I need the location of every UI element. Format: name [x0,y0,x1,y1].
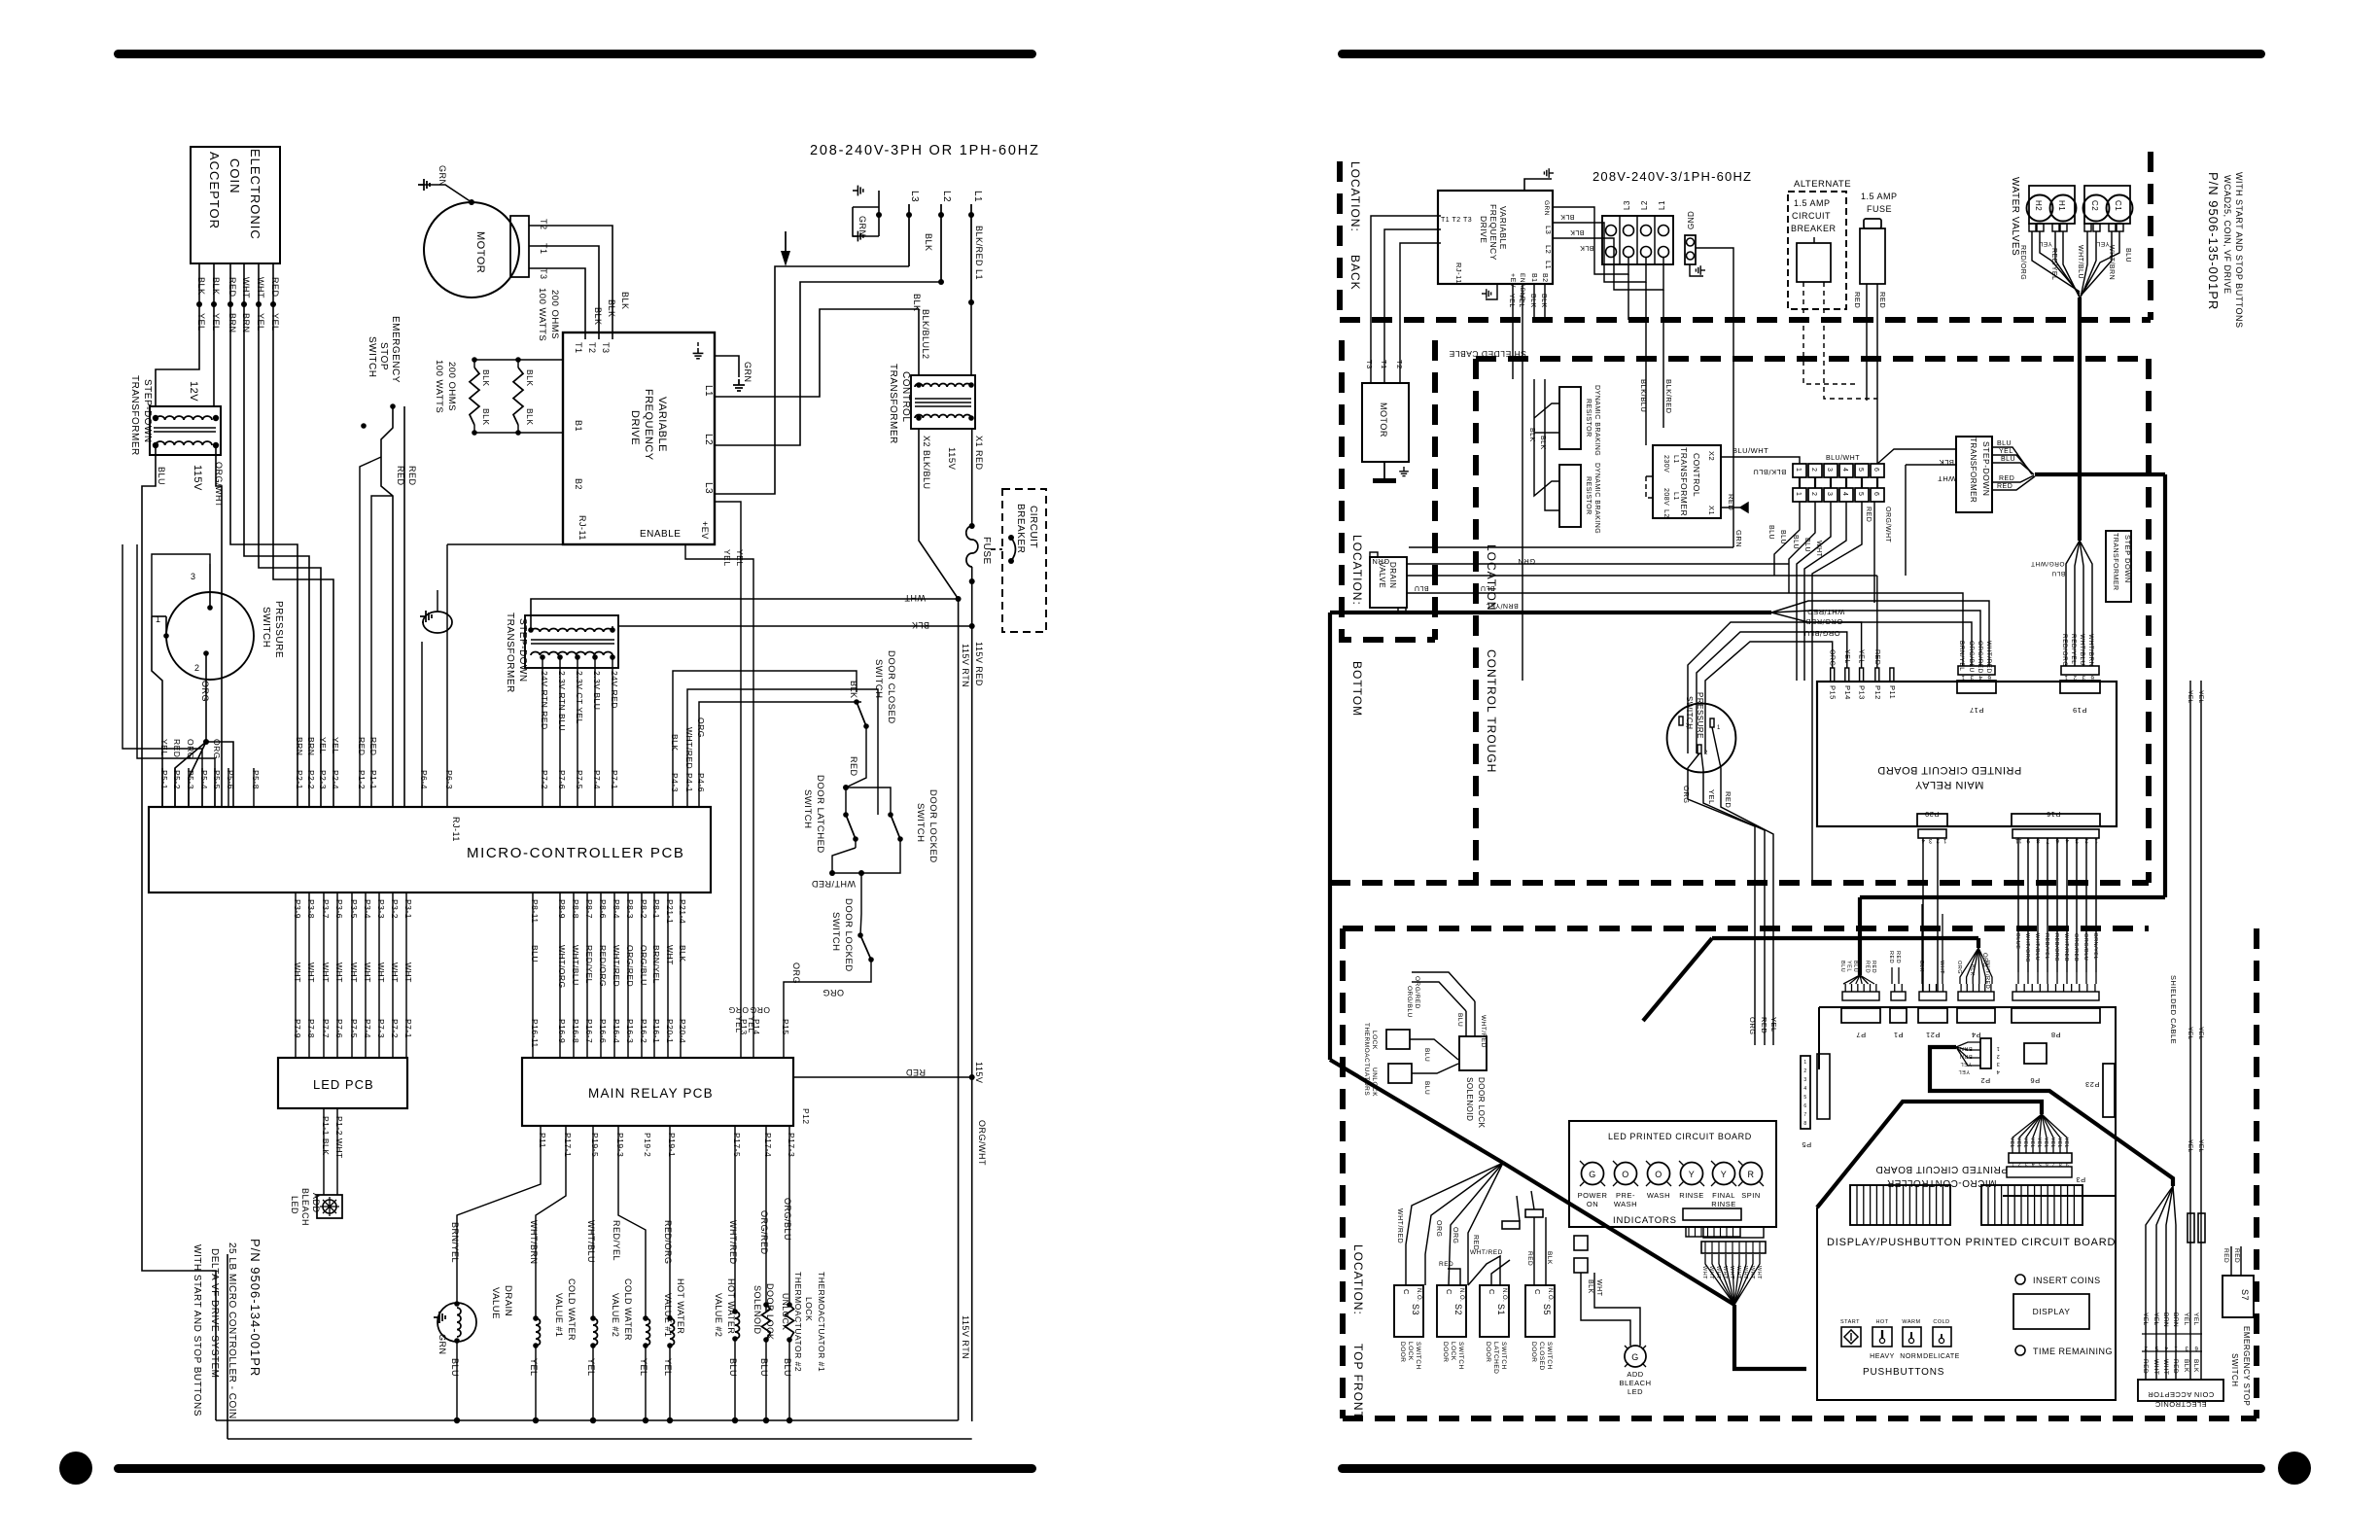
svg-text:WHT: WHT [2152,1359,2159,1375]
location back dashed region [1337,161,1343,320]
svg-text:T1: T1 [539,243,548,255]
time remaining [2015,1346,2025,1355]
location top front dashed region [1343,926,2149,931]
svg-text:TRANSFORMER: TRANSFORMER [2112,533,2118,591]
svg-text:WHT: WHT [376,962,386,983]
svg-text:P8-1: P8-1 [651,899,661,919]
svg-text:EMERGENCY: EMERGENCY [390,316,401,383]
svg-text:T3: T3 [1365,360,1374,369]
svg-text:WHT: WHT [1815,541,1822,558]
svg-text:BRN: BRN [306,737,316,755]
svg-text:ORG/WHT: ORG/WHT [1884,507,1891,543]
svg-text:LOCATION:: LOCATION: [1350,535,1364,606]
svg-text:YEL: YEL [2036,1137,2042,1148]
svg-text:DRIVE: DRIVE [629,410,641,445]
svg-text:P7-8: P7-8 [306,1019,316,1038]
svg-text:SWITCH: SWITCH [261,607,271,647]
x1 wire red [1721,507,1740,508]
svg-text:ORG/BLU: ORG/BLU [639,945,648,986]
svg-text:STEP-DOWN: STEP-DOWN [517,618,528,682]
P6 pins + RJ-11 wire [421,642,423,807]
main harness trunk horizontal [1330,611,1771,614]
svg-text:DELTA VF DRIVE SYSTEM: DELTA VF DRIVE SYSTEM [209,1248,220,1379]
svg-text:B2: B2 [1541,273,1548,283]
svg-text:VALUE #2: VALUE #2 [611,1293,620,1337]
svg-text:24V RED: 24V RED [610,671,619,709]
svg-text:BLK: BLK [211,277,221,296]
svg-text:P8-9: P8-9 [557,899,567,919]
svg-text:6: 6 [2194,1345,2198,1350]
svg-text:WHT: WHT [1756,1266,1762,1279]
svg-text:P16-6: P16-6 [598,1019,608,1043]
page rule: left page bottom bar [114,1464,1036,1473]
svg-text:5: 5 [1857,492,1864,496]
svg-text:WASH: WASH [1647,1191,1670,1200]
svg-text:ORG/RED: ORG/RED [2073,933,2079,962]
svg-text:BRN/YEL: BRN/YEL [651,945,661,984]
svg-text:P8-3: P8-3 [625,899,635,919]
svg-text:L2: L2 [703,434,714,445]
svg-text:RED/YEL: RED/YEL [2044,933,2049,960]
svg-text:BLK: BLK [1539,436,1546,450]
P5-4/P5-5 feeders from left margin [122,544,202,807]
svg-text:ADD: ADD [311,1193,321,1213]
svg-text:P3-6: P3-6 [334,899,344,919]
svg-text:RED: RED [2142,1359,2149,1374]
svg-text:YEL: YEL [2187,1027,2193,1040]
svg-text:3: 3 [1803,1077,1806,1083]
svg-text:POWER: POWER [1578,1191,1608,1200]
svg-text:S5: S5 [1542,1304,1552,1315]
svg-text:TRANSFORMER: TRANSFORMER [505,612,515,693]
svg-text:1: 1 [2064,674,2068,680]
svg-text:8: 8 [2058,1161,2061,1167]
svg-text:S3: S3 [1411,1304,1420,1315]
svg-text:YEL: YEL [1707,789,1716,805]
svg-text:1.5 AMP: 1.5 AMP [1861,192,1898,201]
svg-text:TIME REMAINING: TIME REMAINING [2033,1347,2113,1356]
svg-text:RINSE: RINSE [1711,1200,1735,1208]
svg-text:P6: P6 [2030,1076,2040,1085]
svg-text:+EV: +EV [700,521,710,540]
svg-text:ENABLE: ENABLE [640,529,681,540]
P3 fan [2012,1114,2042,1153]
svg-text:BLU: BLU [2001,456,2015,463]
svg-text:P1-2: P1-2 [357,770,367,789]
svg-text:ORG: ORG [200,681,210,702]
svg-text:LOCATION:: LOCATION: [1351,1244,1365,1315]
terminal block [1602,216,1673,264]
transformer1 fan right [1992,447,2032,474]
page rule: right page top bar [1338,50,2265,58]
svg-text:1: 1 [1717,725,1721,731]
svg-text:RED: RED [1472,1235,1479,1250]
svg-text:1: 1 [1803,1060,1806,1066]
svg-text:2: 2 [1810,468,1817,472]
svg-text:COLD WATER: COLD WATER [567,1278,577,1341]
connector strip 1-6 row2 [1793,488,1806,502]
svg-text:200 OHMS: 200 OHMS [549,290,560,339]
svg-text:WHT: WHT [390,962,400,983]
svg-text:FUSE: FUSE [981,537,992,565]
svg-text:BLU: BLU [2124,248,2131,262]
svg-text:P2-2: P2-2 [306,770,316,789]
L2 wire to VFD [715,282,941,445]
thermoactuator 1 lock [788,1126,790,1305]
svg-text:YEL: YEL [331,737,340,754]
svg-text:ORG/RED: ORG/RED [625,945,635,987]
svg-text:WHT/RED: WHT/RED [684,727,694,769]
svg-text:BLK: BLK [1969,964,1975,976]
svg-text:BLU: BLU [1779,530,1786,544]
svg-text:TRANSFORMER: TRANSFORMER [1969,437,1977,503]
svg-text:BLK: BLK [1560,213,1575,220]
svg-text:WHT/BRN: WHT/BRN [529,1220,539,1265]
svg-text:P5-8: P5-8 [251,770,261,789]
P8 wires [2017,972,2019,984]
dynamic braking resistor 1 [1559,387,1581,449]
svg-text:GRN: GRN [743,362,752,383]
svg-text:YEL: YEL [159,739,169,756]
svg-text:P7-7: P7-7 [321,1019,331,1038]
svg-text:2: 2 [2017,1161,2020,1167]
add bleach led [317,1195,342,1218]
svg-text:L1: L1 [703,385,714,397]
YEL YEL long verticals to relay [715,502,741,1058]
svg-text:BLK: BLK [1587,1279,1593,1294]
svg-text:DOOR LOCK: DOOR LOCK [1477,1077,1486,1129]
svg-text:P5-4: P5-4 [199,770,209,789]
svg-text:EMERGENCY STOP: EMERGENCY STOP [2242,1326,2251,1406]
svg-text:BRN: BRN [2172,1312,2179,1327]
svg-text:P3-2: P3-2 [390,899,400,919]
svg-text:WHT: WHT [1701,1266,1707,1279]
svg-text:P/N 9506-134-001PR: P/N 9506-134-001PR [248,1239,262,1377]
wire 12V transformer secondary [142,445,216,1420]
svg-text:T2: T2 [539,219,548,230]
svg-text:DOOR LOCKED: DOOR LOCKED [843,898,854,972]
svg-text:P12: P12 [1873,685,1882,700]
svg-text:WHT/BLU: WHT/BLU [2034,933,2040,961]
svg-text:WHT: WHT [1708,1266,1714,1279]
hot water valve 1 [618,1126,646,1318]
svg-text:P4: P4 [1971,1031,1980,1039]
svg-text:YEL: YEL [2049,1137,2055,1148]
svg-text:BLUE: BLUE [2014,933,2020,949]
svg-text:P3-4: P3-4 [363,899,372,919]
svg-text:WHT: WHT [349,962,359,983]
svg-text:3: 3 [1970,674,1974,680]
main relay pcb box [522,1058,793,1126]
svg-text:BRN: BRN [227,313,237,333]
svg-text:P1-1 BLK: P1-1 BLK [321,1116,331,1155]
svg-text:P16-11: P16-11 [530,1019,540,1048]
svg-text:BLK: BLK [1540,294,1547,308]
edge connector comb 1 [1850,1185,1950,1225]
svg-text:SPIN: SPIN [1741,1191,1761,1200]
svg-text:ORG: ORG [822,988,844,997]
svg-text:ACCEPTOR: ACCEPTOR [207,152,222,229]
motor leads to VFD [529,226,612,339]
svg-text:BLU: BLU [1414,584,1428,591]
s7 box [2222,1276,2254,1317]
svg-text:THERMOACTUATOR #1: THERMOACTUATOR #1 [817,1272,826,1372]
svg-text:4: 4 [2164,1345,2168,1350]
svg-text:BLEACH: BLEACH [300,1188,310,1226]
row2 fanout [1774,502,1800,576]
svg-text:CONTROL: CONTROL [900,371,911,422]
svg-text:YEL: YEL [663,1358,673,1377]
svg-text:WASH: WASH [1614,1200,1637,1208]
svg-text:1: 1 [1795,468,1802,472]
svg-text:P7-6: P7-6 [557,770,567,789]
svg-text:RED: RED [368,737,378,755]
svg-text:ORG: ORG [1435,1220,1442,1237]
svg-text:1: 1 [1961,674,1965,680]
svg-text:BLU: BLU [1423,1081,1430,1095]
yel wires with fuses [2193,1144,2195,1276]
svg-text:L2: L2 [1662,509,1669,518]
svg-text:P8: P8 [2050,1031,2060,1039]
svg-text:BLK: BLK [525,408,535,426]
harness to S boxes fan [1406,1163,1503,1285]
svg-text:SHIELDED CABLE: SHIELDED CABLE [2169,975,2178,1044]
drain valve [457,1126,541,1304]
svg-text:ELECTRONIC: ELECTRONIC [2154,1400,2206,1409]
vfd gnd stub [1486,284,1497,299]
svg-text:YEL: YEL [1845,961,1851,972]
svg-text:8: 8 [1803,1121,1806,1127]
svg-text:T2: T2 [1395,360,1404,369]
svg-text:2: 2 [2144,1345,2148,1350]
control transformer right page [1653,445,1721,518]
fuse [969,523,975,529]
svg-text:YEL: YEL [2029,1137,2035,1148]
svg-text:GRN: GRN [437,165,447,187]
svg-text:YEL: YEL [256,313,265,332]
svg-text:PRE-: PRE- [1616,1191,1635,1200]
svg-text:YEL: YEL [2192,1312,2199,1326]
svg-text:DYNAMIC BRAKING: DYNAMIC BRAKING [1593,463,1600,534]
svg-text:P3-1: P3-1 [403,899,413,919]
coin acceptor fan [2146,1186,2173,1380]
svg-text:BLK: BLK [196,277,206,296]
svg-text:YEL: YEL [196,313,206,332]
thermoactuator wires [1410,1039,1458,1060]
svg-text:P16-9: P16-9 [557,1019,567,1043]
svg-text:INSERT COINS: INSERT COINS [2033,1276,2101,1285]
s7 red wires [2230,1246,2232,1276]
svg-text:RED/ORG: RED/ORG [2019,245,2026,280]
P3 bundle below micro pcb [295,892,297,1058]
svg-text:P7-5: P7-5 [349,1019,359,1038]
svg-text:P2-3: P2-3 [318,770,328,789]
display box [2013,1294,2089,1329]
svg-text:SWITCH: SWITCH [1457,1342,1464,1370]
svg-text:BLU: BLU [530,945,540,962]
svg-text:BLU: BLU [728,1358,738,1377]
svg-text:ORG: ORG [212,739,222,759]
water valve trunk cable [2078,297,2082,541]
svg-text:C: C [1445,1289,1453,1295]
svg-text:VARIABLE: VARIABLE [656,397,668,452]
svg-text:BRN/YEL: BRN/YEL [2092,933,2098,960]
svg-text:N.O.: N.O. [1458,1288,1464,1302]
svg-text:ORG: ORG [1682,786,1691,804]
svg-text:ORG/WHT: ORG/WHT [977,1120,987,1166]
svg-text:DELICATE: DELICATE [1923,1353,1960,1360]
svg-text:RED: RED [2172,1359,2179,1374]
svg-text:WHT/RED: WHT/RED [1480,1015,1487,1048]
svg-text:START: START [1840,1319,1860,1325]
svg-text:N.O.: N.O. [1416,1288,1421,1302]
svg-text:BLK/RED: BLK/RED [1664,379,1673,414]
svg-text:CIRCUIT: CIRCUIT [1792,211,1831,221]
svg-text:TRANSFORMER: TRANSFORMER [129,375,140,456]
svg-text:WHT: WHT [306,962,316,983]
svg-text:P19: P19 [2073,706,2087,715]
L1 wire to control transformer [968,299,974,305]
svg-text:WHT: WHT [1749,1266,1755,1279]
svg-text:115V RED: 115V RED [974,642,984,686]
svg-text:P4-6: P4-6 [696,773,706,792]
svg-text:RJ-11: RJ-11 [1454,262,1463,284]
motor box right page [1362,383,1409,462]
svg-text:RED: RED [1888,951,1894,963]
svg-text:BRN/YEL: BRN/YEL [1958,641,1965,671]
svg-text:L3: L3 [909,191,920,202]
svg-text:WHT/BRN: WHT/BRN [2108,245,2115,280]
svg-text:VARIABLE: VARIABLE [1498,206,1508,250]
svg-text:MOTOR: MOTOR [1379,402,1388,437]
svg-text:RED/ORG: RED/ORG [598,945,608,987]
svg-text:BRN: BRN [1959,1053,1972,1059]
svg-text:DOOR LOCKED: DOOR LOCKED [927,789,938,863]
svg-text:WHT: WHT [1735,1266,1741,1279]
vfd bottom wires [1512,284,1514,320]
svg-text:208V-240V-3/1PH-60HZ: 208V-240V-3/1PH-60HZ [1592,169,1752,184]
svg-text:RED: RED [1999,475,2014,482]
svg-text:P1-1: P1-1 [368,770,378,789]
svg-text:DYNAMIC BRAKING: DYNAMIC BRAKING [1593,385,1600,456]
svg-text:C1: C1 [2114,200,2122,211]
svg-text:1.5 AMP: 1.5 AMP [1794,198,1831,208]
svg-text:BLK: BLK [678,945,687,962]
coin acceptor wires [198,263,200,350]
svg-text:P17-3: P17-3 [787,1133,796,1157]
svg-text:RED/YEL: RED/YEL [2070,634,2077,664]
svg-text:GRN: GRN [1543,200,1550,216]
svg-text:BLU: BLU [1792,535,1799,549]
svg-text:BLK: BLK [1570,228,1585,235]
svg-text:YEL: YEL [529,1358,539,1377]
svg-text:GND: GND [1687,211,1696,229]
svg-text:P8-11: P8-11 [530,899,540,924]
svg-text:RED: RED [1865,507,1872,522]
svg-text:BLK/RED L1: BLK/RED L1 [974,226,984,280]
insert coins [2015,1275,2025,1284]
svg-text:200 OHMS: 200 OHMS [446,362,457,411]
svg-text:LED PRINTED CIRCUIT BOARD: LED PRINTED CIRCUIT BOARD [1608,1132,1752,1141]
svg-text:B2: B2 [574,478,583,490]
P4 bundle with door switch nest [673,671,857,807]
led pcb connector row [1683,1208,1741,1220]
svg-text:WHT/BLU: WHT/BLU [2077,245,2083,279]
micro-controller pcb box [149,807,711,892]
svg-text:RJ-11: RJ-11 [577,515,587,541]
svg-text:RED: RED [2233,1248,2240,1263]
svg-text:5: 5 [1857,468,1864,472]
svg-text:WHT: WHT [334,962,344,983]
svg-text:ORG/RED: ORG/RED [759,1210,769,1255]
svg-text:P7-9: P7-9 [293,1019,302,1038]
svg-text:VALUE #2: VALUE #2 [714,1293,723,1337]
svg-text:ORG: ORG [791,962,801,984]
svg-text:P3-3: P3-3 [376,899,386,919]
svg-text:BLK: BLK [1528,428,1535,442]
drain valve wires [1407,563,1789,565]
vfd motor leads [1371,216,1441,383]
svg-text:RED: RED [1878,292,1887,308]
svg-text:BLU: BLU [1456,1013,1463,1027]
P21 wires [1921,904,1923,984]
svg-text:G: G [1589,1170,1596,1179]
svg-text:LOCK: LOCK [1407,1342,1414,1361]
svg-text:SWITCH: SWITCH [1415,1342,1421,1370]
svg-text:1: 1 [1942,837,1946,843]
pressure switch wires to P5 [152,554,210,616]
svg-text:T1 T2 T3: T1 T2 T3 [1441,217,1472,224]
svg-text:X2 BLK/BLU: X2 BLK/BLU [922,436,931,490]
svg-text:WHT: WHT [241,277,251,298]
svg-text:P2-4: P2-4 [331,770,340,789]
svg-text:ORG: ORG [1956,961,1962,974]
micro pcb left notch [1819,1069,1850,1185]
svg-text:BLU: BLU [1767,525,1774,540]
svg-text:BLU: BLU [759,1358,769,1377]
svg-text:BLK: BLK [911,620,929,630]
trough exit wires left side [1522,680,1523,682]
grn arrowed wire [1409,546,1733,548]
svg-text:BLK: BLK [593,307,603,326]
bottom return buses [216,1419,959,1421]
svg-text:SOLENOID: SOLENOID [752,1285,762,1335]
svg-text:WHT/RED: WHT/RED [1807,608,1845,616]
svg-text:YEL: YEL [2142,1312,2149,1326]
main relay pcb right page [1817,682,2117,826]
motor [424,202,519,297]
svg-text:HOT WATER: HOT WATER [676,1278,685,1334]
svg-text:P15: P15 [1829,685,1837,700]
svg-text:BLU: BLU [450,1358,460,1377]
P19 connector [2060,681,2100,693]
svg-text:2: 2 [2073,674,2077,680]
S5 switch box [1525,1285,1555,1337]
svg-text:VALUE: VALUE [490,1287,501,1319]
svg-text:ORG/BLU: ORG/BLU [1968,641,1975,673]
svg-text:BLK: BLK [924,233,933,252]
harness angled fan mid [1771,564,1853,576]
electronic coin acceptor box [191,147,280,263]
svg-text:YEL: YEL [586,1358,596,1377]
svg-text:BREAKER: BREAKER [1015,504,1026,553]
svg-text:G: G [1631,1352,1639,1362]
svg-text:STEP-DOWN: STEP-DOWN [142,379,153,443]
svg-text:BRN: BRN [295,737,304,755]
add bleach led wires right page [1581,1273,1630,1346]
harness fork labels [1771,601,1989,666]
svg-text:YEL: YEL [2197,1139,2204,1153]
